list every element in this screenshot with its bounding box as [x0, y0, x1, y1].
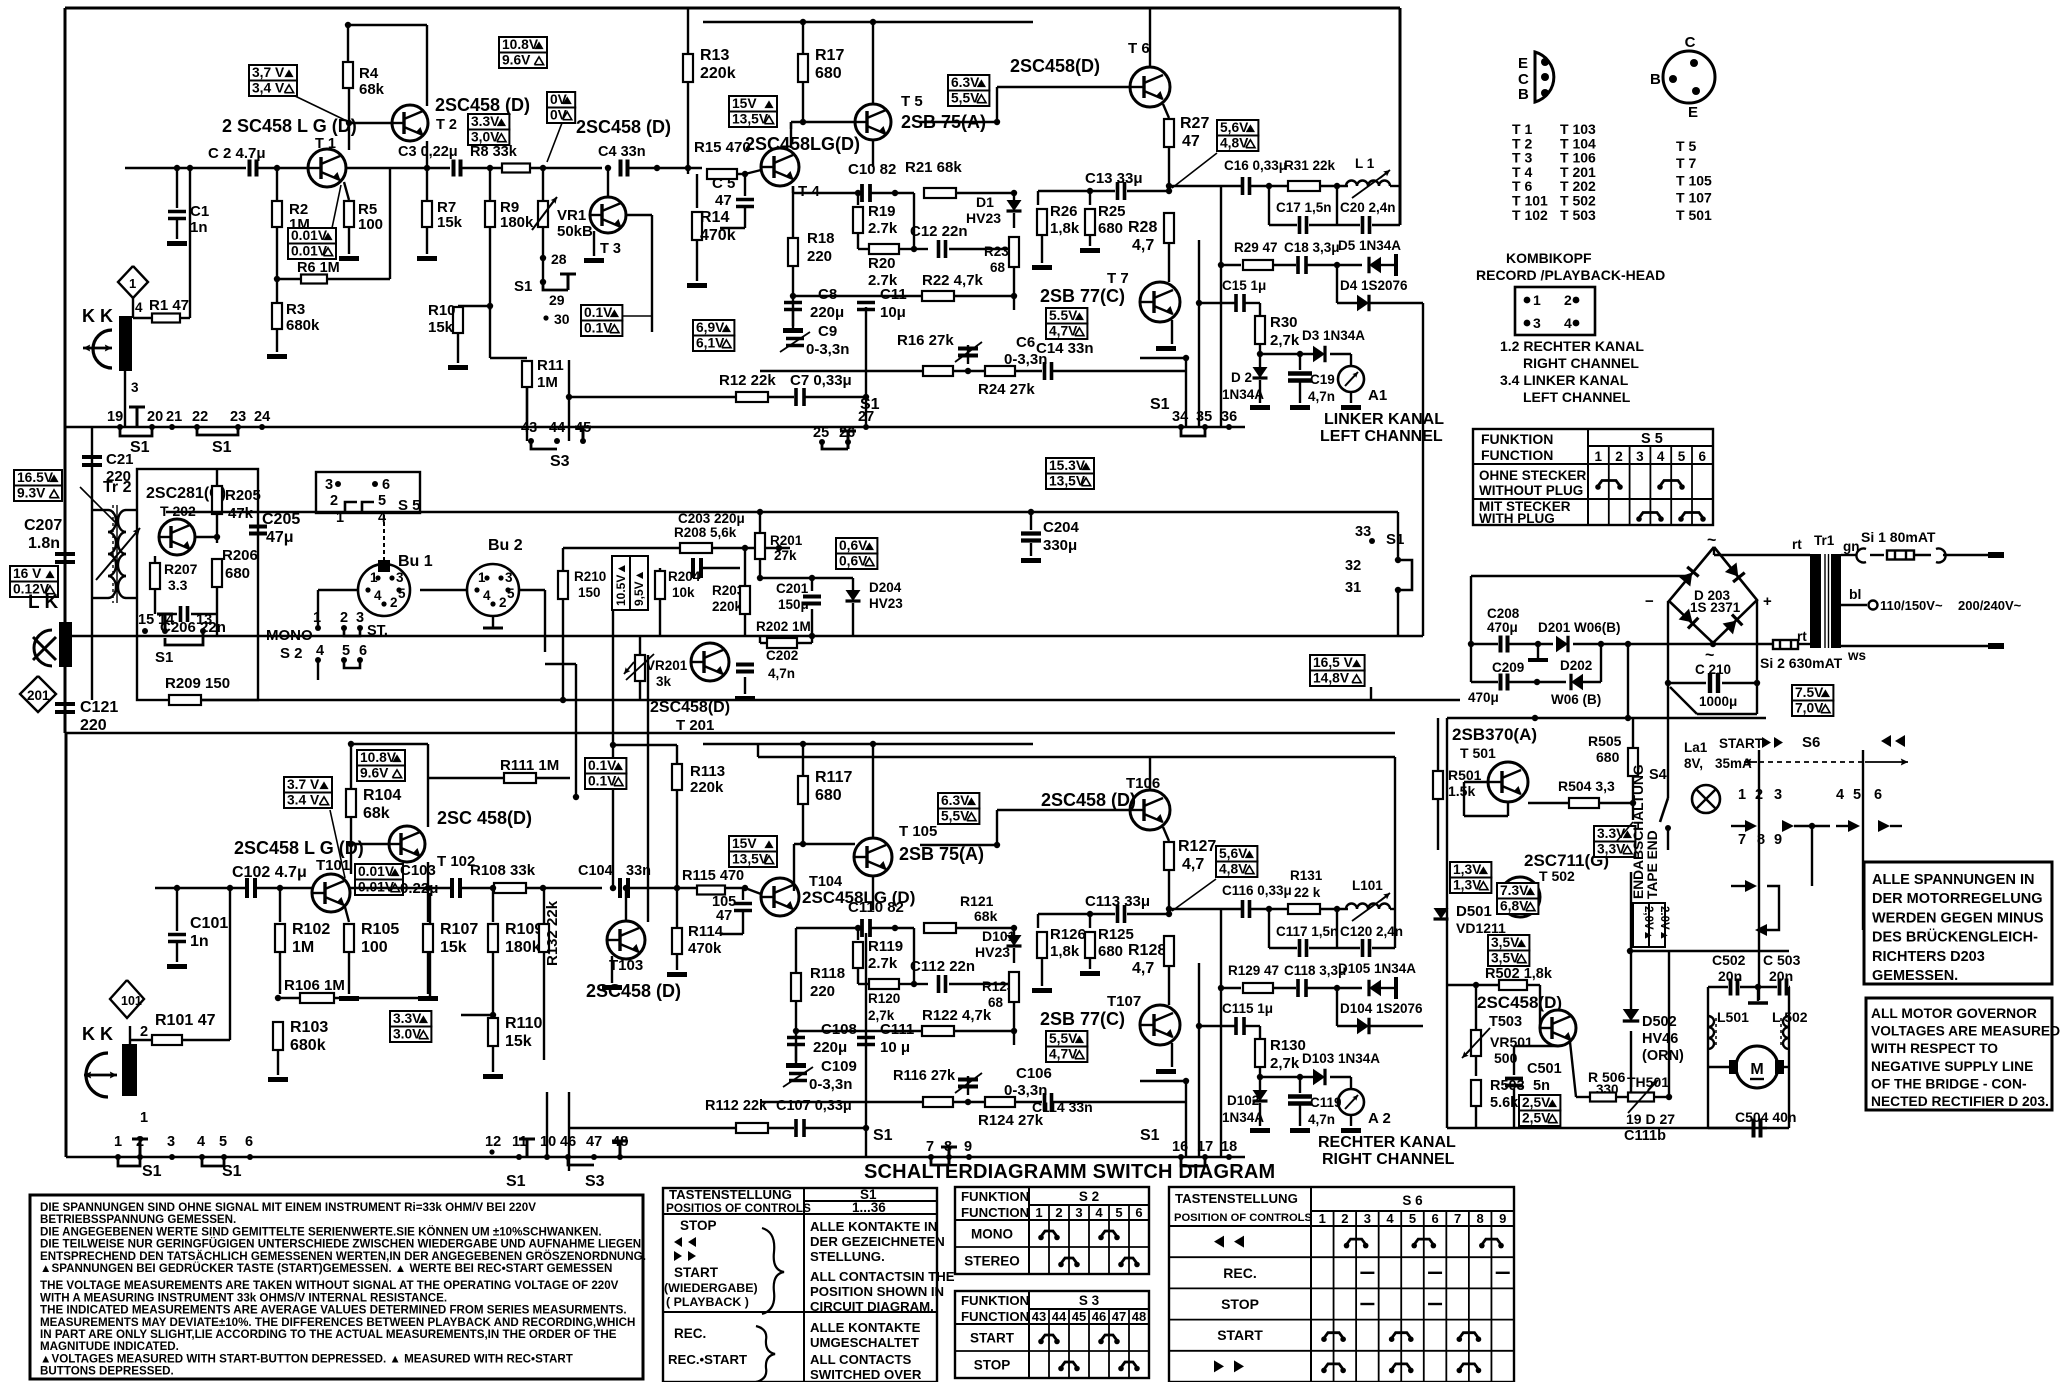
svg-text:22: 22 [192, 409, 208, 425]
svg-text:C111b: C111b [1624, 1128, 1666, 1144]
svg-text:R201: R201 [770, 533, 803, 548]
svg-text:R21 68k: R21 68k [905, 159, 962, 176]
svg-text:1n: 1n [190, 933, 209, 950]
svg-text:D1: D1 [976, 194, 994, 210]
svg-text:S 5: S 5 [1641, 431, 1663, 447]
svg-text:9: 9 [1499, 1211, 1506, 1226]
svg-text:16,5 V: 16,5 V [1313, 655, 1354, 670]
svg-text:W06 (B): W06 (B) [1551, 692, 1601, 707]
svg-text:15V: 15V [732, 836, 757, 851]
svg-text:C18 3,3μ: C18 3,3μ [1284, 240, 1340, 255]
svg-text:4,8V: 4,8V [1219, 862, 1248, 877]
svg-text:T104: T104 [809, 874, 842, 890]
svg-text:4,7: 4,7 [1132, 960, 1154, 977]
svg-text:47: 47 [715, 192, 732, 209]
svg-text:3: 3 [1774, 787, 1782, 803]
svg-text:8: 8 [1757, 832, 1765, 848]
svg-text:3: 3 [1636, 449, 1644, 464]
svg-text:ENDABSCHALTUNG: ENDABSCHALTUNG [1631, 764, 1646, 899]
svg-text:680: 680 [1596, 749, 1620, 765]
svg-text:D502: D502 [1642, 1014, 1677, 1030]
svg-text:4: 4 [1386, 1211, 1394, 1226]
svg-text:LEFT CHANNEL: LEFT CHANNEL [1523, 389, 1631, 405]
svg-text:Tr1: Tr1 [1814, 533, 1835, 548]
svg-text:TH501: TH501 [1627, 1074, 1669, 1090]
svg-text:C120 2,4n: C120 2,4n [1340, 924, 1403, 939]
svg-text:DIE ANGEGEBENEN WERTE SIND GEM: DIE ANGEGEBENEN WERTE SIND GEMITTELTE SE… [40, 1225, 602, 1238]
svg-text:D204: D204 [869, 580, 902, 595]
svg-text:6,8V: 6,8V [1500, 899, 1529, 914]
svg-text:ws: ws [1847, 648, 1866, 663]
svg-text:POSITION OF CONTROLS: POSITION OF CONTROLS [1174, 1212, 1313, 1224]
svg-text:5,6V: 5,6V [1219, 846, 1248, 861]
svg-text:(ORN): (ORN) [1642, 1048, 1684, 1064]
svg-text:3: 3 [1364, 1211, 1371, 1226]
svg-text:STOP: STOP [1221, 1296, 1259, 1312]
svg-text:5: 5 [219, 1134, 227, 1150]
svg-text:1: 1 [140, 1110, 148, 1126]
svg-text:ALLE KONTAKTE: ALLE KONTAKTE [810, 1320, 921, 1335]
svg-text:R19: R19 [868, 203, 896, 220]
svg-text:2: 2 [340, 610, 348, 626]
svg-text:S 2: S 2 [280, 645, 303, 662]
svg-text:16 V: 16 V [13, 566, 42, 581]
svg-text:WITH A MEASURING INSTRUMENT 33: WITH A MEASURING INSTRUMENT 33k OHMS/V I… [40, 1291, 447, 1304]
svg-text:▲VOLTAGES MEASURED WITH START-: ▲VOLTAGES MEASURED WITH START-BUTTON DEP… [40, 1352, 573, 1365]
svg-text:SCHALTERDIAGRAMM SWITCH DIAG: SCHALTERDIAGRAMM SWITCH DIAGRAM [864, 1161, 1275, 1183]
svg-text:C21: C21 [106, 451, 134, 468]
svg-text:C17 1,5n: C17 1,5n [1276, 200, 1332, 215]
svg-text:RECORD /PLAYBACK-HEAD: RECORD /PLAYBACK-HEAD [1476, 267, 1665, 283]
svg-text:C205: C205 [262, 511, 300, 528]
svg-text:R110: R110 [505, 1015, 542, 1032]
svg-text:C 2 4.7μ: C 2 4.7μ [208, 145, 266, 162]
svg-text:R22 4,7k: R22 4,7k [922, 272, 984, 289]
svg-text:680: 680 [225, 565, 250, 582]
svg-text:5: 5 [1115, 1205, 1122, 1220]
svg-text:FUNKTION: FUNKTION [961, 1293, 1029, 1308]
svg-text:68k: 68k [363, 805, 390, 822]
svg-text:D105 1N34A: D105 1N34A [1338, 961, 1416, 976]
svg-text:R205: R205 [225, 487, 261, 504]
svg-text:19 D 27: 19 D 27 [1626, 1111, 1675, 1127]
svg-text:R31 22k: R31 22k [1284, 158, 1336, 173]
svg-text:21: 21 [166, 409, 182, 425]
svg-text:C9: C9 [818, 323, 837, 340]
svg-text:47: 47 [586, 1134, 602, 1150]
svg-text:3.4 LINKER KANAL: 3.4 LINKER KANAL [1500, 372, 1629, 388]
svg-text:S1: S1 [1150, 396, 1170, 413]
svg-text:STOP: STOP [974, 1358, 1011, 1373]
svg-text:L 1: L 1 [1355, 156, 1375, 171]
svg-text:T 5: T 5 [1676, 138, 1696, 154]
svg-text:0,6V: 0,6V [839, 538, 868, 553]
svg-text:STELLUNG.: STELLUNG. [810, 1249, 885, 1264]
svg-text:47μ: 47μ [266, 529, 294, 546]
svg-text:29: 29 [549, 292, 565, 308]
svg-text:C7 0,33μ: C7 0,33μ [790, 372, 852, 389]
svg-text:201: 201 [27, 688, 50, 703]
svg-text:ALLE KONTAKTE IN: ALLE KONTAKTE IN [810, 1219, 937, 1234]
svg-text:R14: R14 [700, 209, 729, 226]
svg-text:0V: 0V [550, 92, 568, 107]
svg-text:7,0V: 7,0V [1795, 701, 1824, 716]
svg-text:2SC458 L G (D): 2SC458 L G (D) [234, 838, 364, 858]
svg-text:3,5V: 3,5V [1491, 935, 1520, 950]
svg-text:5: 5 [342, 643, 350, 659]
svg-text:50kB: 50kB [557, 223, 593, 240]
svg-text:T 503: T 503 [1560, 207, 1596, 223]
svg-text:L 502: L 502 [1772, 1009, 1808, 1025]
svg-text:L501: L501 [1717, 1009, 1749, 1025]
svg-text:DER GEZEICHNETEN: DER GEZEICHNETEN [810, 1234, 945, 1249]
svg-text:5: 5 [378, 493, 386, 509]
svg-text:T 5: T 5 [901, 93, 923, 110]
svg-text:2,7k: 2,7k [1270, 332, 1300, 349]
svg-text:680: 680 [815, 787, 842, 804]
svg-text:2: 2 [1755, 787, 1763, 803]
svg-text:7: 7 [926, 1139, 934, 1155]
svg-text:R112 22k: R112 22k [705, 1098, 768, 1114]
svg-text:680: 680 [1098, 220, 1123, 237]
svg-text:TASTENSTELLUNG: TASTENSTELLUNG [669, 1187, 792, 1202]
svg-text:R130: R130 [1270, 1037, 1306, 1054]
svg-text:R25: R25 [1098, 203, 1126, 220]
svg-text:LEFT CHANNEL: LEFT CHANNEL [1320, 428, 1443, 445]
svg-text:2SC458LG(D): 2SC458LG(D) [745, 134, 860, 154]
svg-text:470μ: 470μ [1468, 690, 1499, 705]
svg-text:C4 33n: C4 33n [598, 144, 646, 160]
svg-text:23: 23 [230, 409, 246, 425]
svg-text:15k: 15k [428, 319, 454, 336]
svg-text:R30: R30 [1270, 314, 1298, 331]
svg-text:4: 4 [1095, 1205, 1103, 1220]
svg-text:24: 24 [254, 409, 270, 425]
svg-text:START: START [1719, 736, 1764, 751]
svg-text:NEGATIVE SUPPLY LINE: NEGATIVE SUPPLY LINE [1871, 1059, 2033, 1074]
svg-text:13,5V: 13,5V [732, 112, 769, 127]
svg-text:C209: C209 [1492, 660, 1524, 675]
svg-text:CIRCUIT DIAGRAM.: CIRCUIT DIAGRAM. [810, 1299, 934, 1314]
svg-text:28: 28 [551, 251, 567, 267]
svg-text:D 2: D 2 [1231, 370, 1252, 385]
svg-text:WITH RESPECT TO: WITH RESPECT TO [1871, 1041, 1998, 1056]
svg-text:4: 4 [197, 1134, 205, 1150]
svg-text:VR1: VR1 [557, 207, 586, 224]
svg-text:B: B [1518, 86, 1529, 103]
svg-text:ALL MOTOR GOVERNOR: ALL MOTOR GOVERNOR [1871, 1006, 2037, 1021]
svg-text:S1: S1 [873, 1127, 893, 1144]
svg-text:C11: C11 [880, 286, 907, 303]
svg-text:1: 1 [1738, 787, 1746, 803]
svg-text:2: 2 [390, 595, 398, 610]
svg-text:S6: S6 [1802, 734, 1820, 751]
svg-text:E: E [1688, 104, 1698, 121]
svg-text:20: 20 [147, 409, 163, 425]
svg-text:C111: C111 [880, 1021, 914, 1038]
svg-text:220: 220 [810, 983, 835, 1000]
svg-text:33: 33 [1355, 524, 1371, 540]
svg-text:R202 1M: R202 1M [756, 619, 811, 634]
svg-text:C10 82: C10 82 [848, 161, 896, 178]
svg-text:15k: 15k [505, 1033, 532, 1050]
svg-text:5: 5 [1409, 1211, 1416, 1226]
svg-text:C109: C109 [821, 1058, 857, 1075]
svg-text:D202: D202 [1560, 658, 1592, 673]
svg-text:2: 2 [1055, 1205, 1062, 1220]
svg-text:19: 19 [107, 409, 123, 425]
svg-text:16.5V: 16.5V [17, 470, 54, 485]
svg-text:4: 4 [1836, 787, 1844, 803]
svg-text:2SB370(A): 2SB370(A) [1452, 725, 1537, 744]
svg-text:C114 33n: C114 33n [1032, 1099, 1093, 1115]
svg-text:1: 1 [114, 1134, 122, 1150]
svg-text:0.1V: 0.1V [584, 305, 613, 320]
svg-text:C118 3,3μ: C118 3,3μ [1284, 963, 1346, 978]
svg-text:R132 22k: R132 22k [544, 900, 561, 966]
svg-text:R103: R103 [290, 1019, 328, 1036]
svg-text:REC.•START: REC.•START [668, 1352, 747, 1367]
svg-text:R131: R131 [1290, 868, 1323, 883]
svg-text:3: 3 [325, 477, 333, 493]
svg-text:THE INDICATED MEASUREMENTS ARE: THE INDICATED MEASUREMENTS ARE AVERAGE V… [40, 1304, 627, 1317]
svg-text:MONO: MONO [266, 627, 313, 644]
svg-text:5,5V: 5,5V [941, 809, 970, 824]
svg-text:101: 101 [121, 994, 142, 1008]
svg-text:T101: T101 [316, 857, 350, 874]
svg-text:FUNCTION: FUNCTION [961, 1205, 1029, 1220]
svg-text:R24 27k: R24 27k [978, 381, 1035, 398]
svg-text:T 502: T 502 [1539, 868, 1575, 884]
svg-text:Si 2 630mAT: Si 2 630mAT [1760, 655, 1843, 671]
svg-text:C112 22n: C112 22n [910, 958, 975, 975]
svg-text:R113: R113 [690, 763, 725, 780]
svg-text:R208 5,6k: R208 5,6k [674, 525, 737, 540]
svg-text:D201 W06(B): D201 W06(B) [1538, 620, 1621, 635]
svg-text:R27: R27 [1180, 115, 1209, 132]
svg-text:D4 1S2076: D4 1S2076 [1340, 278, 1408, 293]
svg-text:110/150V~: 110/150V~ [1880, 598, 1943, 613]
svg-text:VR201: VR201 [646, 658, 688, 673]
svg-text:680: 680 [1098, 943, 1123, 960]
svg-text:3: 3 [505, 570, 513, 585]
svg-text:C202: C202 [766, 648, 798, 663]
svg-text:1,8k: 1,8k [1050, 943, 1080, 960]
svg-text:START: START [1217, 1327, 1263, 1343]
svg-text:3.3V: 3.3V [471, 114, 500, 129]
svg-text:L101: L101 [1352, 878, 1383, 893]
svg-text:12: 12 [485, 1134, 501, 1150]
svg-text:R126: R126 [1050, 926, 1086, 943]
svg-text:GEMESSEN.: GEMESSEN. [1872, 968, 1958, 984]
svg-text:M: M [1750, 1061, 1763, 1078]
svg-text:8V,: 8V, [1684, 756, 1703, 771]
svg-text:C14 33n: C14 33n [1036, 340, 1094, 357]
svg-text:R504 3,3: R504 3,3 [1558, 778, 1615, 794]
svg-text:2 SC458 L G (D): 2 SC458 L G (D) [222, 116, 357, 136]
svg-text:ALLE SPANNUNGEN IN: ALLE SPANNUNGEN IN [1872, 872, 2034, 888]
svg-text:D3 1N34A: D3 1N34A [1302, 328, 1365, 343]
svg-text:R10: R10 [428, 302, 456, 319]
svg-text:1: 1 [129, 276, 136, 291]
svg-text:2,7k: 2,7k [1270, 1055, 1300, 1072]
svg-text:200/240V~: 200/240V~ [1958, 598, 2022, 613]
svg-text:3,4 V: 3,4 V [252, 81, 285, 96]
svg-text:43: 43 [1032, 1309, 1046, 1324]
svg-text:RIGHT CHANNEL: RIGHT CHANNEL [1523, 355, 1639, 371]
svg-text:470μ: 470μ [1487, 620, 1518, 635]
svg-text:R3: R3 [286, 301, 305, 318]
svg-text:rt: rt [1792, 537, 1802, 552]
svg-text:2SB 77(C): 2SB 77(C) [1040, 1009, 1125, 1029]
svg-text:1...36: 1...36 [852, 1200, 886, 1215]
svg-text:T 4: T 4 [798, 183, 820, 200]
svg-text:6: 6 [245, 1134, 253, 1150]
svg-text:R115 470: R115 470 [682, 868, 744, 884]
svg-text:B: B [1650, 71, 1661, 88]
svg-text:T503: T503 [1489, 1014, 1522, 1030]
svg-text:3: 3 [1075, 1205, 1082, 1220]
svg-text:C117 1,5n: C117 1,5n [1276, 924, 1338, 939]
svg-text:OHNE STECKER: OHNE STECKER [1479, 468, 1587, 483]
svg-text:2.7k: 2.7k [868, 955, 898, 972]
svg-text:2.0V▲: 2.0V▲ [1658, 906, 1670, 941]
svg-text:STOP: STOP [680, 1218, 717, 1233]
svg-text:C101: C101 [190, 915, 228, 932]
svg-text:4,7n: 4,7n [768, 666, 795, 681]
svg-text:Si 1 80mAT: Si 1 80mAT [1861, 529, 1936, 545]
svg-text:6.3V: 6.3V [941, 793, 970, 808]
svg-text:S1: S1 [142, 1163, 162, 1180]
svg-text:T 6: T 6 [1128, 40, 1150, 57]
svg-text:4,7: 4,7 [1132, 237, 1154, 254]
svg-text:DES BRÜCKENGLEICH-: DES BRÜCKENGLEICH- [1872, 929, 2038, 946]
svg-text:T 3: T 3 [600, 241, 621, 257]
svg-text:10.8V: 10.8V [502, 37, 539, 52]
svg-text:0.01V: 0.01V [291, 244, 328, 259]
svg-text:THE VOLTAGE MEASUREMENTS ARE T: THE VOLTAGE MEASUREMENTS ARE TAKEN WITHO… [40, 1279, 619, 1292]
svg-text:470k: 470k [688, 940, 722, 957]
svg-text:R101 47: R101 47 [155, 1012, 216, 1029]
svg-text:3: 3 [356, 610, 364, 626]
svg-text:7.3V: 7.3V [1500, 883, 1529, 898]
svg-text:R23: R23 [984, 244, 1009, 259]
svg-text:9,5V▲: 9,5V▲ [632, 569, 646, 606]
svg-text:S 2: S 2 [1079, 1189, 1099, 1204]
svg-text:R121: R121 [960, 893, 994, 909]
svg-text:C108: C108 [821, 1021, 857, 1038]
svg-text:15.3V: 15.3V [1049, 458, 1086, 473]
svg-text:C103: C103 [400, 862, 436, 879]
svg-text:10μ: 10μ [880, 304, 906, 321]
svg-text:5.5V: 5.5V [1049, 308, 1078, 323]
svg-text:R505: R505 [1588, 733, 1622, 749]
svg-text:36: 36 [1221, 409, 1237, 425]
svg-text:R119: R119 [868, 938, 903, 955]
svg-text:220k: 220k [700, 65, 736, 82]
svg-text:T 105: T 105 [899, 823, 937, 840]
svg-text:5,5V: 5,5V [951, 91, 980, 106]
svg-text:4,7: 4,7 [1182, 856, 1204, 873]
svg-text:NECTED RECTIFIER D 203.: NECTED RECTIFIER D 203. [1871, 1094, 2049, 1109]
svg-text:DER MOTORREGELUNG: DER MOTORREGELUNG [1872, 891, 2043, 907]
svg-text:43: 43 [521, 420, 537, 436]
svg-text:1: 1 [1035, 1205, 1042, 1220]
svg-text:68k: 68k [359, 81, 385, 98]
svg-text:R122 4,7k: R122 4,7k [922, 1007, 992, 1024]
svg-text:3.4 V: 3.4 V [287, 793, 320, 808]
svg-text:R26: R26 [1050, 203, 1078, 220]
svg-text:30: 30 [554, 311, 570, 327]
svg-text:( PLAYBACK ): ( PLAYBACK ) [666, 1295, 749, 1309]
svg-text:D104 1S2076: D104 1S2076 [1340, 1001, 1423, 1016]
svg-text:15: 15 [138, 612, 154, 628]
svg-text:R104: R104 [363, 787, 401, 804]
svg-text:4: 4 [1657, 449, 1665, 464]
svg-text:2: 2 [499, 595, 507, 610]
svg-text:1.8n: 1.8n [28, 535, 60, 552]
svg-text:S 3: S 3 [1079, 1293, 1100, 1308]
svg-text:R501: R501 [1448, 767, 1482, 783]
svg-text:10k: 10k [672, 585, 695, 600]
svg-text:220k: 220k [712, 599, 743, 614]
svg-text:S1: S1 [1140, 1127, 1160, 1144]
svg-text:6.3V: 6.3V [951, 75, 980, 90]
svg-text:C19: C19 [1310, 372, 1335, 387]
svg-text:T107: T107 [1107, 993, 1141, 1010]
svg-text:220μ: 220μ [810, 304, 844, 321]
svg-text:C110 82: C110 82 [848, 899, 904, 916]
svg-text:R129 47: R129 47 [1228, 963, 1279, 978]
svg-text:25: 25 [813, 425, 829, 441]
svg-text:3,3V: 3,3V [1597, 842, 1626, 857]
svg-text:3.3V: 3.3V [393, 1011, 422, 1026]
svg-text:S1: S1 [1386, 531, 1404, 548]
svg-text:9.6V: 9.6V [502, 53, 531, 68]
svg-text:R16 27k: R16 27k [897, 332, 954, 349]
svg-text:A1: A1 [1368, 387, 1387, 404]
svg-text:T 201: T 201 [676, 717, 714, 734]
svg-text:C207: C207 [24, 517, 62, 534]
svg-text:C201: C201 [776, 581, 809, 596]
svg-text:(WIEDERGABE): (WIEDERGABE) [664, 1281, 758, 1295]
svg-text:STEREO: STEREO [964, 1254, 1020, 1269]
svg-text:6: 6 [382, 477, 390, 493]
svg-text:220k: 220k [690, 779, 724, 796]
svg-text:10.8V: 10.8V [360, 750, 397, 765]
svg-text:R29 47: R29 47 [1234, 240, 1278, 255]
svg-text:1.5k: 1.5k [1448, 783, 1475, 799]
svg-text:680k: 680k [286, 317, 320, 334]
svg-text:3.0V: 3.0V [393, 1027, 422, 1042]
svg-text:1000μ: 1000μ [1699, 694, 1737, 709]
svg-text:WITH PLUG: WITH PLUG [1479, 511, 1555, 526]
svg-text:C107 0,33μ: C107 0,33μ [776, 1098, 852, 1114]
svg-text:S1: S1 [514, 278, 532, 295]
svg-text:15V: 15V [732, 96, 757, 111]
svg-text:VR501: VR501 [1490, 1034, 1533, 1050]
svg-text:TAPE END: TAPE END [1645, 830, 1660, 899]
svg-text:S3: S3 [585, 1173, 605, 1190]
svg-text:10.5V▲: 10.5V▲ [614, 563, 628, 606]
svg-text:R8 33k: R8 33k [470, 144, 518, 160]
svg-text:R17: R17 [815, 47, 844, 64]
svg-text:100: 100 [358, 216, 383, 233]
svg-text:RICHTERS D203: RICHTERS D203 [1872, 949, 1985, 965]
svg-text:15k: 15k [437, 214, 463, 231]
svg-text:RIGHT CHANNEL: RIGHT CHANNEL [1322, 1151, 1455, 1168]
svg-text:5,5V: 5,5V [1049, 1031, 1078, 1046]
